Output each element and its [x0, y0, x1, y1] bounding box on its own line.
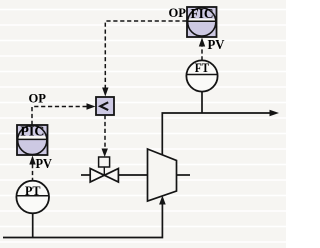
svg-text:OP: OP: [29, 90, 47, 105]
svg-text:FT: FT: [195, 61, 210, 75]
svg-text:PT: PT: [25, 184, 41, 198]
svg-text:PV: PV: [208, 37, 225, 52]
svg-text:PIC: PIC: [20, 124, 44, 139]
svg-text:PV: PV: [36, 156, 53, 171]
svg-text:OP: OP: [169, 5, 187, 20]
svg-text:FIC: FIC: [191, 6, 214, 21]
